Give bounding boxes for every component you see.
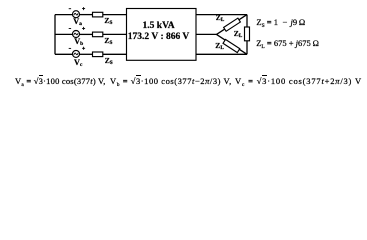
label ZL upper diagonal xyxy=(216,14,225,23)
transformer rating text 1.5 kVA xyxy=(124,22,194,32)
label Vc xyxy=(74,59,82,68)
wire: source Va to impedance Zs (a) xyxy=(79,14,92,16)
transformer voltage text 173.2 V : 866 V xyxy=(124,33,194,43)
wire: phase a from bus to source Va xyxy=(55,14,73,16)
wire: Zs (a) to transformer xyxy=(103,14,127,16)
wire: neutral bus (left vertical) xyxy=(54,15,56,55)
label Zs phase c xyxy=(105,57,113,66)
polarity plus of Vb xyxy=(82,27,85,30)
equation ZL value xyxy=(256,39,319,51)
label ZL right vertical xyxy=(234,30,243,39)
transformer T1 box xyxy=(127,9,197,61)
resistor box Zs phase a xyxy=(93,12,103,17)
wire: Zs (b) to transformer xyxy=(103,33,127,35)
equation Zs value xyxy=(256,18,305,30)
polarity plus of Vc xyxy=(82,47,85,50)
wire: delta right side vertical (node A to node C) xyxy=(246,15,248,55)
polarity minus of Vb xyxy=(69,28,71,30)
label Vb xyxy=(74,38,83,47)
voltage source Vb (circle) xyxy=(73,31,80,38)
sine squiggle inside source Va xyxy=(74,13,78,15)
load box ZL right vertical xyxy=(245,27,250,41)
label ZL lower diagonal xyxy=(215,42,224,51)
wire: phase c from bus to source Vc xyxy=(55,53,73,55)
wire: transformer secondary middle to node B xyxy=(196,33,217,35)
label Zs phase a xyxy=(104,17,112,26)
label Va xyxy=(73,18,82,27)
label Zs phase b xyxy=(104,37,112,46)
wire: source Vb to impedance Zs (b) xyxy=(79,33,92,35)
load box ZL upper diagonal xyxy=(224,18,241,31)
sine squiggle inside source Vc xyxy=(74,53,78,55)
wire: source Vc to impedance Zs (c) xyxy=(79,53,92,55)
wire: delta upper diagonal (node B to node A) xyxy=(217,15,248,35)
wire: transformer secondary bottom to node C xyxy=(196,53,247,55)
polarity minus of Vc xyxy=(69,47,71,49)
voltage source Vc (circle) xyxy=(73,50,80,57)
resistor box Zs phase b xyxy=(93,32,103,37)
polarity minus of Va xyxy=(69,8,71,10)
resistor box Zs phase c xyxy=(93,52,103,57)
wire: Zs (c) to transformer xyxy=(103,53,127,55)
equation source voltages xyxy=(15,77,362,89)
sine squiggle inside source Vb xyxy=(74,33,78,35)
wire: phase b from bus to source Vb xyxy=(55,33,73,35)
wire: transformer secondary top to node A xyxy=(196,14,247,16)
voltage source Va (circle) xyxy=(73,11,80,18)
wire: delta lower diagonal (node B to node C) xyxy=(217,34,248,54)
load box ZL lower diagonal xyxy=(223,39,240,52)
polarity plus of Va xyxy=(82,7,85,10)
